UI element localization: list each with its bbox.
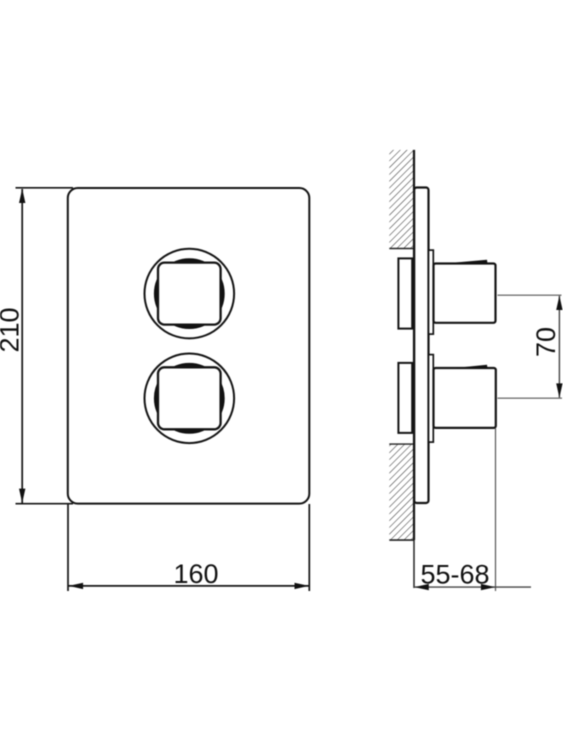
svg-text:70: 70 bbox=[531, 327, 561, 357]
svg-text:160: 160 bbox=[173, 559, 218, 589]
svg-text:210: 210 bbox=[0, 307, 25, 352]
svg-text:55-68: 55-68 bbox=[420, 559, 489, 589]
